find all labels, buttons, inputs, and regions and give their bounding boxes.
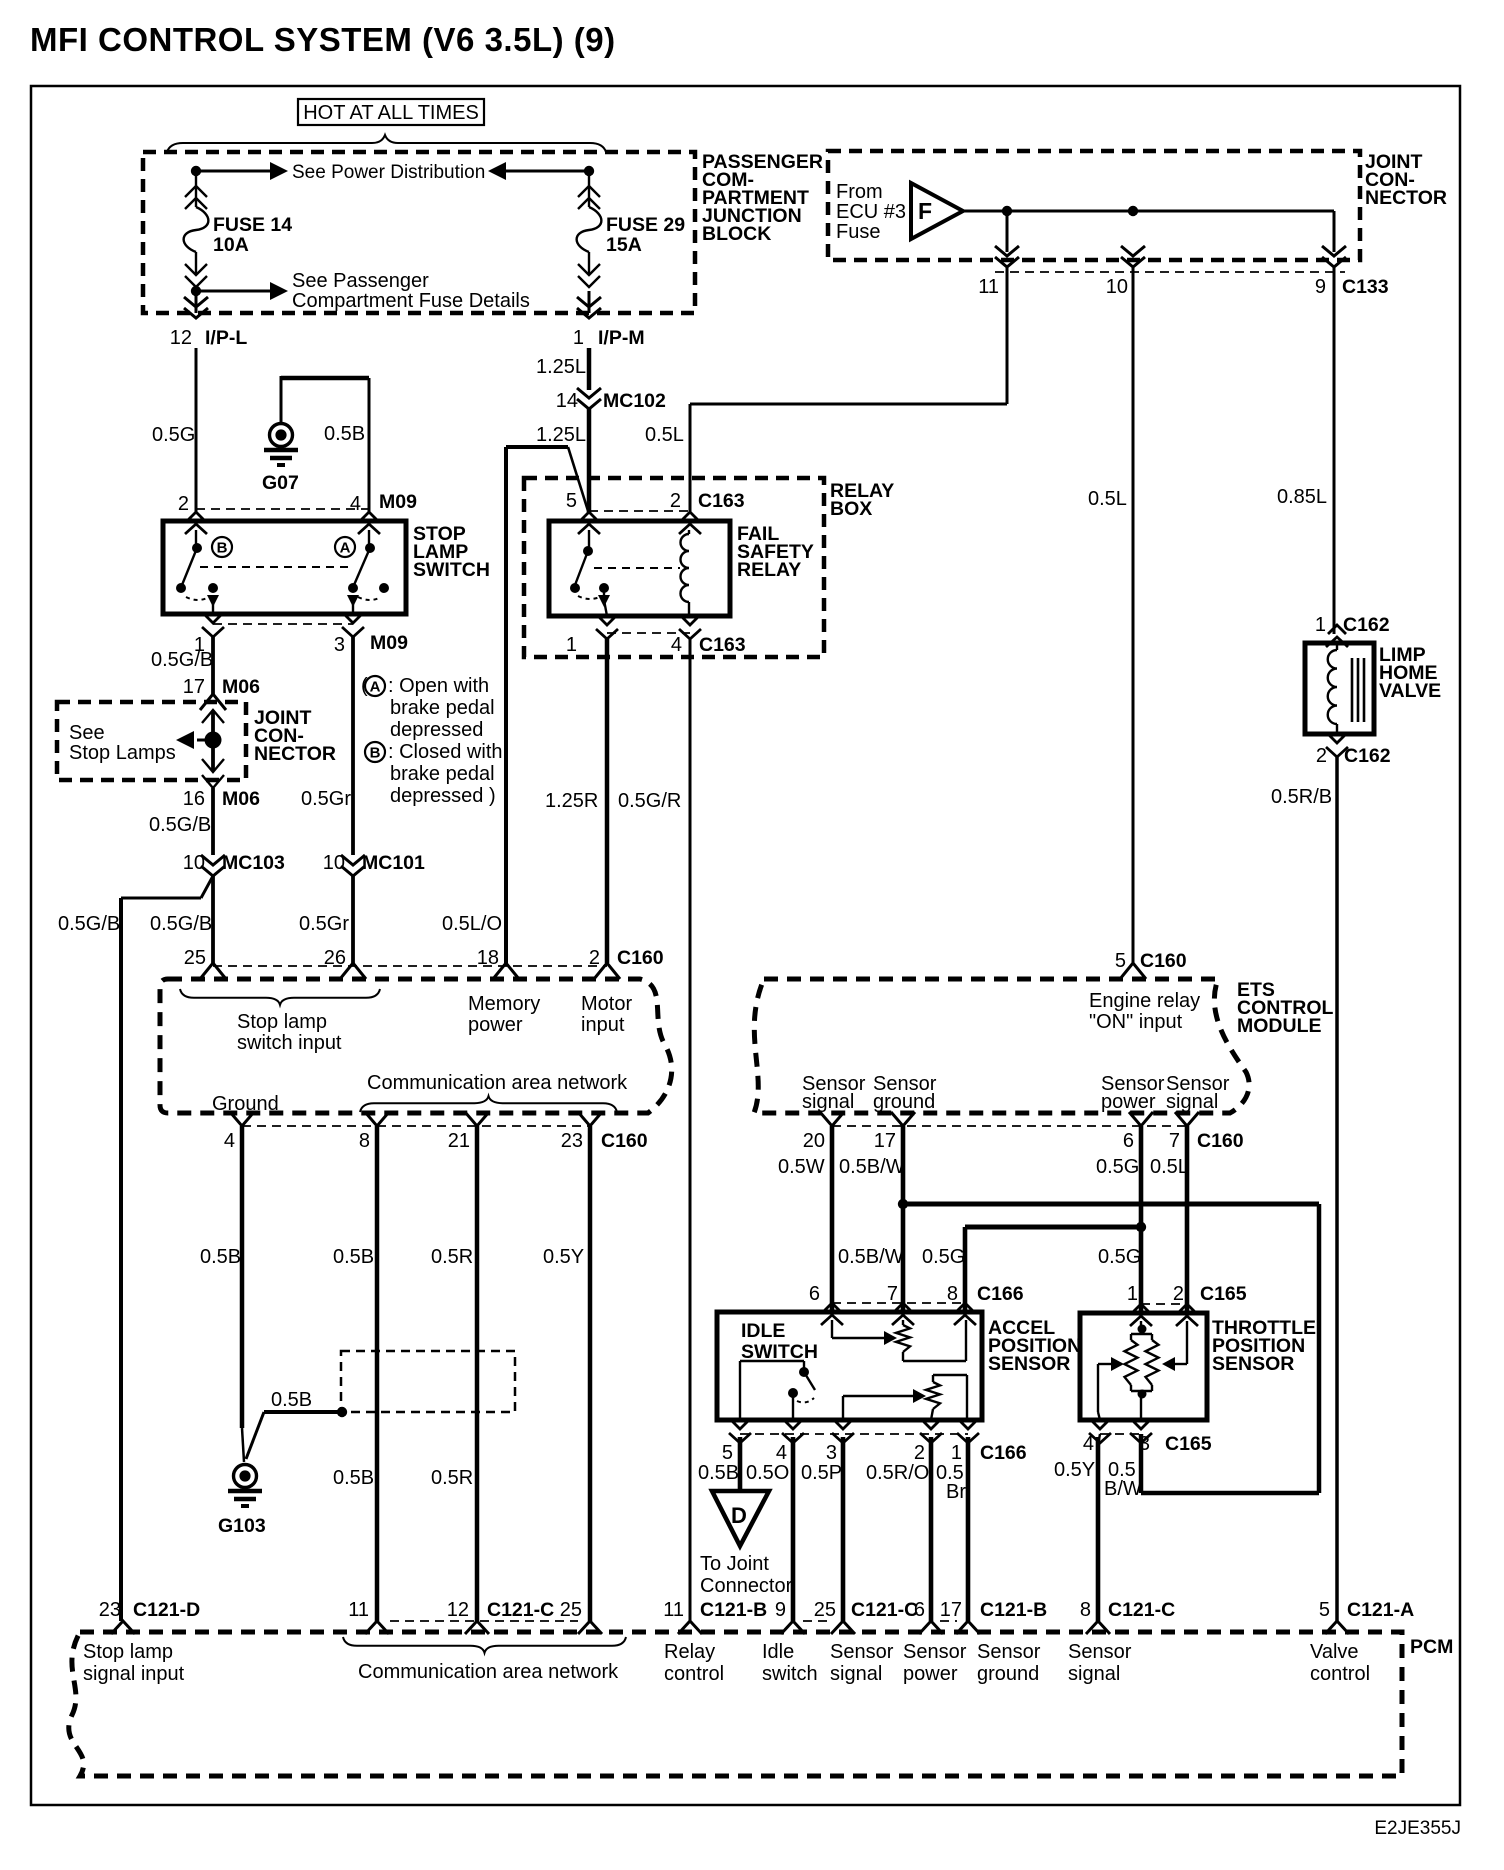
APS pin 7 entry bbox=[892, 1303, 914, 1325]
svg-text:RELAY: RELAY bbox=[737, 559, 801, 581]
svg-text:M09: M09 bbox=[370, 632, 408, 654]
TPS pin 4 exit bbox=[1089, 1420, 1111, 1443]
wire 0.5W ETS pin20 to APS pin6 bbox=[830, 1126, 835, 1312]
connector line M09 top bbox=[196, 508, 369, 510]
svg-text:NECTOR: NECTOR bbox=[254, 743, 336, 765]
node joint connector bbox=[205, 732, 222, 749]
wire 0.5R/B valve to PCM 5 bbox=[1335, 757, 1339, 1621]
svg-text:4: 4 bbox=[350, 493, 361, 515]
wire bus hot feed horizontal bbox=[196, 170, 270, 173]
stop lamp switch pin 3 exit bbox=[342, 614, 364, 637]
svg-text:0.5Gr: 0.5Gr bbox=[299, 913, 349, 935]
svg-text:switch: switch bbox=[762, 1663, 818, 1685]
svg-text:6: 6 bbox=[809, 1283, 820, 1305]
svg-text:brake pedal: brake pedal bbox=[390, 697, 495, 719]
stop lamp switch pin 1 exit bbox=[202, 614, 224, 637]
PCM pin 5 valve control bbox=[1325, 1621, 1349, 1634]
wire 0.5Gr switch pin3 to MC101 bbox=[351, 637, 355, 855]
svg-text:0.5G/B: 0.5G/B bbox=[150, 913, 212, 935]
svg-text:5: 5 bbox=[1115, 950, 1126, 972]
wire 0.5R CAN low to PCM 12 bbox=[475, 1126, 480, 1621]
wire 0.5B/W ETS pin17 to APS pin7 bbox=[901, 1126, 906, 1312]
APS pin 8 entry bbox=[954, 1303, 976, 1325]
svg-text:C165: C165 bbox=[1165, 1433, 1212, 1455]
arrow from right feed bbox=[488, 162, 506, 180]
svg-text:C121-C: C121-C bbox=[1108, 1599, 1175, 1621]
ETS control module right bay dashed outline bbox=[754, 979, 1249, 1113]
svg-text:F: F bbox=[918, 198, 932, 224]
connector line C160 bottom left bbox=[242, 1125, 590, 1127]
PCM pin 17 sensor ground bbox=[956, 1621, 980, 1634]
svg-text:Communication area network: Communication area network bbox=[367, 1072, 628, 1094]
connector line C166 top bbox=[832, 1302, 965, 1304]
switch mechanical link dashed bbox=[200, 566, 350, 568]
svg-text:4: 4 bbox=[1083, 1433, 1094, 1455]
ETS module pin 17 exit bbox=[891, 1112, 915, 1126]
svg-text:0.5L: 0.5L bbox=[1088, 488, 1127, 510]
PCM pin 25 sensor signal bbox=[831, 1621, 855, 1634]
svg-text:power: power bbox=[468, 1014, 523, 1036]
svg-text:A: A bbox=[370, 679, 381, 696]
shield dashed box bbox=[341, 1351, 515, 1412]
wire 0.5B stop lamp switch pin4 to G07 bbox=[281, 376, 369, 381]
svg-text:signal: signal bbox=[802, 1091, 854, 1113]
svg-text:0.5G/B: 0.5G/B bbox=[149, 814, 211, 836]
node junction below fuse 14 bbox=[191, 286, 201, 296]
arrow to See Stop Lamps bbox=[176, 731, 194, 749]
svg-text:Sensor: Sensor bbox=[1068, 1641, 1132, 1663]
svg-text:depressed ): depressed ) bbox=[390, 785, 496, 807]
ETS module pin 5 entry bbox=[1120, 963, 1146, 979]
svg-text:C121-C: C121-C bbox=[851, 1599, 918, 1621]
svg-text:input: input bbox=[581, 1014, 625, 1036]
svg-text:0.5R/O: 0.5R/O bbox=[866, 1462, 929, 1484]
svg-text:C121-A: C121-A bbox=[1347, 1599, 1414, 1621]
APS pin 1 exit bbox=[957, 1420, 979, 1443]
svg-text:M09: M09 bbox=[379, 491, 417, 513]
ETS module pin 4 exit bbox=[230, 1112, 254, 1126]
svg-text:10: 10 bbox=[183, 852, 205, 874]
svg-text:0.5R: 0.5R bbox=[431, 1467, 473, 1489]
node sensor power junction bbox=[1136, 1222, 1146, 1232]
svg-text:5: 5 bbox=[566, 490, 577, 512]
svg-text:C163: C163 bbox=[698, 490, 745, 512]
wire 0.5R/O APS pin2 to PCM 6 bbox=[929, 1437, 934, 1621]
wire 0.5G/R relay pin4 to PCM relay control bbox=[689, 639, 692, 1621]
svg-text:FUSE 14: FUSE 14 bbox=[213, 214, 292, 236]
svg-text:12: 12 bbox=[170, 327, 192, 349]
wire 10 0.5L to ETS pin5 bbox=[1132, 266, 1135, 963]
svg-text:Relay: Relay bbox=[664, 1641, 715, 1663]
svg-text:brake pedal: brake pedal bbox=[390, 763, 495, 785]
relay box dashed outline bbox=[524, 478, 824, 657]
svg-text:See Passenger: See Passenger bbox=[292, 270, 429, 292]
svg-text:6: 6 bbox=[1123, 1130, 1134, 1152]
svg-text:"ON" input: "ON" input bbox=[1089, 1011, 1183, 1033]
svg-text:12: 12 bbox=[447, 1599, 469, 1621]
svg-text:MODULE: MODULE bbox=[1237, 1015, 1322, 1037]
TPS pin 2 entry bbox=[1176, 1304, 1198, 1326]
svg-text:I/P-M: I/P-M bbox=[598, 327, 645, 349]
svg-text:MC103: MC103 bbox=[222, 852, 285, 874]
svg-text:0.5G: 0.5G bbox=[152, 424, 195, 446]
brace stop lamp switch input bbox=[180, 989, 380, 1005]
ground G103 symbol bbox=[228, 1465, 262, 1507]
joint connector dashed box top right bbox=[828, 151, 1360, 260]
svg-text:0.5W: 0.5W bbox=[778, 1156, 825, 1178]
svg-text:C133: C133 bbox=[1342, 276, 1389, 298]
wire to passenger fuse details bbox=[196, 290, 270, 293]
svg-text:8: 8 bbox=[359, 1130, 370, 1152]
accel position sensor / idle switch box bbox=[717, 1312, 982, 1420]
svg-text:3: 3 bbox=[826, 1442, 837, 1464]
connector C133 pin 10 exit bbox=[1121, 246, 1145, 267]
connector exit pin 12 I/P-L bbox=[195, 291, 198, 313]
svg-text:11: 11 bbox=[348, 1599, 369, 1621]
svg-text:Sensor: Sensor bbox=[903, 1641, 967, 1663]
svg-text:0.5B: 0.5B bbox=[333, 1246, 374, 1268]
svg-text:Stop lamp: Stop lamp bbox=[237, 1011, 327, 1033]
svg-text:0.5B: 0.5B bbox=[200, 1246, 241, 1268]
svg-text:signal input: signal input bbox=[83, 1663, 185, 1685]
junction block dashed box bbox=[143, 152, 695, 313]
connector C133 pin 9 exit bbox=[1322, 246, 1346, 267]
svg-text:0.5G/R: 0.5G/R bbox=[618, 790, 681, 812]
svg-text:C121-C: C121-C bbox=[487, 1599, 554, 1621]
connector line C165 top bbox=[1141, 1303, 1187, 1305]
svg-text:0.5L/O: 0.5L/O bbox=[442, 913, 502, 935]
svg-text:4: 4 bbox=[776, 1442, 787, 1464]
svg-text:17: 17 bbox=[940, 1599, 962, 1621]
valve coil bbox=[1328, 650, 1337, 724]
limp home valve box bbox=[1305, 643, 1374, 734]
svg-text:Stop Lamps: Stop Lamps bbox=[69, 742, 176, 764]
svg-text:: Open with: : Open with bbox=[388, 675, 489, 697]
svg-text:Br: Br bbox=[946, 1481, 966, 1503]
svg-text:E2JE355J: E2JE355J bbox=[1374, 1818, 1461, 1839]
svg-text:power: power bbox=[903, 1663, 958, 1685]
svg-text:Sensor: Sensor bbox=[830, 1641, 894, 1663]
svg-text:C166: C166 bbox=[980, 1442, 1027, 1464]
connector line C160 bottom right bbox=[832, 1125, 1187, 1127]
node junction fuse 29 top bbox=[584, 166, 594, 176]
connector C133 pin 11 exit bbox=[1006, 211, 1009, 252]
brace under HOT AT ALL TIMES bbox=[167, 135, 606, 152]
svg-text:C121-B: C121-B bbox=[700, 1599, 767, 1621]
svg-text:ground: ground bbox=[873, 1091, 935, 1113]
ETS module pin 18 entry bbox=[493, 963, 519, 979]
PCM pin 9 idle switch bbox=[781, 1621, 805, 1634]
connector line M09 bottom bbox=[213, 623, 353, 625]
svg-text:Valve: Valve bbox=[1310, 1641, 1359, 1663]
svg-text:0.5G/B: 0.5G/B bbox=[151, 649, 213, 671]
APS potentiometer 1 bbox=[902, 1320, 904, 1325]
svg-text:0.85L: 0.85L bbox=[1277, 486, 1327, 508]
fail safety relay box bbox=[549, 521, 730, 616]
wire 0.5Gr MC101 to ETS pin 26 bbox=[351, 876, 355, 963]
svg-text:11: 11 bbox=[978, 276, 999, 298]
svg-text:B/W: B/W bbox=[1104, 1478, 1142, 1500]
wire 9 0.85L to limp home valve bbox=[1333, 266, 1336, 634]
triangle connector D bbox=[712, 1491, 769, 1546]
svg-text:Communication area network: Communication area network bbox=[358, 1661, 619, 1683]
svg-text:ECU #3: ECU #3 bbox=[836, 201, 906, 223]
svg-text:16: 16 bbox=[183, 788, 205, 810]
svg-text:8: 8 bbox=[1080, 1599, 1091, 1621]
svg-text:SWITCH: SWITCH bbox=[413, 559, 490, 581]
svg-text:1: 1 bbox=[1127, 1283, 1138, 1305]
svg-text:signal: signal bbox=[1068, 1663, 1120, 1685]
wire 0.5G/B MC103 to ETS pin 25 bbox=[211, 876, 215, 963]
svg-text:VALVE: VALVE bbox=[1379, 680, 1441, 702]
PCM pin 23 C121-D bbox=[121, 1620, 123, 1623]
svg-text:signal: signal bbox=[830, 1663, 882, 1685]
svg-text:5: 5 bbox=[1319, 1599, 1330, 1621]
svg-text:Fuse: Fuse bbox=[836, 221, 880, 243]
svg-text:25: 25 bbox=[184, 947, 206, 969]
svg-text:Stop lamp: Stop lamp bbox=[83, 1641, 173, 1663]
ETS control module left bay dashed outline bbox=[160, 979, 672, 1113]
svg-text:9: 9 bbox=[1315, 276, 1326, 298]
svg-text:0.5B: 0.5B bbox=[324, 423, 365, 445]
connector line C163 top bbox=[589, 510, 690, 512]
connector dashes C121 idle bbox=[803, 1620, 832, 1622]
inline connector MC101 bbox=[341, 855, 365, 876]
svg-text:ground: ground bbox=[977, 1663, 1039, 1685]
svg-text:control: control bbox=[1310, 1663, 1370, 1685]
idle switch contact bbox=[739, 1361, 741, 1420]
wire 0.5G I/P-L to stop lamp switch pin 2 bbox=[195, 348, 198, 512]
connector line C165 bottom bbox=[1100, 1433, 1141, 1435]
relay mechanical link dashed bbox=[594, 567, 680, 569]
svg-text:NECTOR: NECTOR bbox=[1365, 187, 1447, 209]
svg-text:3: 3 bbox=[334, 634, 345, 656]
wire 1.25R relay pin1 to ETS motor input bbox=[605, 639, 610, 963]
svg-text:10A: 10A bbox=[213, 234, 249, 256]
ETS module pin 20 exit bbox=[820, 1112, 844, 1126]
svg-text:0.5G: 0.5G bbox=[1096, 1156, 1139, 1178]
wire 0.5G/B switch pin1 to joint connector bbox=[211, 637, 215, 694]
svg-text:6: 6 bbox=[914, 1599, 925, 1621]
svg-text:B: B bbox=[217, 540, 228, 557]
node wire10 branch bbox=[1128, 206, 1138, 216]
relay coil bbox=[681, 534, 690, 602]
svg-text:0.5R: 0.5R bbox=[431, 1246, 473, 1268]
svg-text:D: D bbox=[731, 1503, 747, 1528]
svg-text:BLOCK: BLOCK bbox=[702, 223, 771, 245]
wire 0.5G ETS pin6 to TPS pin1 bbox=[1139, 1126, 1144, 1313]
PCM pin 8 sensor signal bbox=[1086, 1621, 1110, 1634]
stop lamp switch pin 2 entry bbox=[185, 512, 207, 534]
svg-text:1: 1 bbox=[951, 1442, 962, 1464]
svg-text:Compartment Fuse Details: Compartment Fuse Details bbox=[292, 290, 530, 312]
svg-text:25: 25 bbox=[814, 1599, 836, 1621]
inline connector MC103 bbox=[201, 855, 225, 876]
TPS wiper to pin 2 bbox=[1186, 1321, 1188, 1364]
svg-text:2: 2 bbox=[1173, 1283, 1184, 1305]
svg-text:0.5B/W: 0.5B/W bbox=[838, 1246, 904, 1268]
node shield junction bbox=[337, 1407, 347, 1417]
svg-text:0.5O: 0.5O bbox=[746, 1462, 789, 1484]
svg-text:MFI CONTROL SYSTEM (V6 3.5L) (: MFI CONTROL SYSTEM (V6 3.5L) (9) bbox=[30, 21, 616, 58]
PCM pin 11 relay control bbox=[678, 1621, 702, 1634]
svg-text:2: 2 bbox=[914, 1442, 925, 1464]
wire 1.25L I/P-M to MC102 bbox=[587, 348, 592, 390]
svg-text:G07: G07 bbox=[262, 472, 299, 494]
svg-text:0.5Y: 0.5Y bbox=[543, 1246, 584, 1268]
TPS resistor pair bbox=[1140, 1321, 1142, 1329]
svg-text:15A: 15A bbox=[606, 234, 642, 256]
throttle position sensor box bbox=[1080, 1313, 1207, 1420]
ETS module pin 25 entry bbox=[200, 963, 226, 979]
APS pot2 wiper from pin 3 bbox=[842, 1396, 844, 1420]
svg-text:C162: C162 bbox=[1344, 745, 1391, 767]
stop lamps joint connector dashed box bbox=[57, 702, 246, 780]
svg-text:C121-B: C121-B bbox=[980, 1599, 1047, 1621]
APS pin 2 exit bbox=[920, 1420, 942, 1443]
APS pin 4 exit bbox=[782, 1420, 804, 1443]
svg-text:HOT AT ALL TIMES: HOT AT ALL TIMES bbox=[303, 102, 479, 124]
ETS module pin 23 exit bbox=[578, 1112, 602, 1126]
svg-text:To Joint: To Joint bbox=[700, 1553, 769, 1575]
svg-text:2: 2 bbox=[670, 490, 681, 512]
svg-text:B: B bbox=[370, 745, 381, 762]
svg-text:M06: M06 bbox=[222, 676, 260, 698]
fuse F14 symbol bbox=[184, 171, 209, 287]
PCM pin 11 CAN bbox=[365, 1621, 389, 1634]
joint connector M06 entry pin 17 bbox=[200, 694, 226, 710]
wire 0.5O APS pin4 to PCM 9 bbox=[791, 1437, 796, 1621]
svg-text:10: 10 bbox=[1106, 276, 1128, 298]
svg-text:switch input: switch input bbox=[237, 1032, 342, 1054]
svg-text:power: power bbox=[1101, 1091, 1156, 1113]
svg-text:MC101: MC101 bbox=[362, 852, 425, 874]
connector line C166 bottom bbox=[740, 1433, 968, 1435]
svg-text:1.25L: 1.25L bbox=[536, 356, 586, 378]
svg-text:7: 7 bbox=[887, 1283, 898, 1305]
relay switch contact bbox=[588, 530, 590, 548]
svg-text:See Power Distribution: See Power Distribution bbox=[292, 162, 485, 183]
TPS wiper to pin 4 bbox=[1097, 1364, 1099, 1412]
svg-text:20: 20 bbox=[803, 1130, 825, 1152]
svg-text:0.5G: 0.5G bbox=[922, 1246, 965, 1268]
wire 0.5Y ETS pin23 to PCM 25 bbox=[588, 1126, 593, 1621]
wire 0.5B ETS pin4 to G103 bbox=[240, 1126, 245, 1428]
wire 0.5L ETS pin7 to TPS pin2 bbox=[1185, 1126, 1190, 1313]
APS pin 5 exit bbox=[729, 1420, 751, 1443]
svg-text:Motor: Motor bbox=[581, 993, 632, 1015]
PCM pin 25 CAN bbox=[578, 1621, 602, 1634]
svg-text:5: 5 bbox=[722, 1442, 733, 1464]
wire 1.25L MC102 to fail safety relay pin 5 bbox=[587, 409, 592, 514]
brace communication area network bottom bbox=[343, 1637, 626, 1653]
valve bars bbox=[1351, 658, 1354, 722]
svg-text:25: 25 bbox=[560, 1599, 582, 1621]
relay pin 1 exit bbox=[596, 616, 618, 639]
ETS module pin 21 exit bbox=[465, 1112, 489, 1126]
ETS module pin 26 entry bbox=[340, 963, 366, 979]
switch A contact bbox=[368, 530, 370, 545]
svg-text:C166: C166 bbox=[977, 1283, 1024, 1305]
svg-text:Engine relay: Engine relay bbox=[1089, 990, 1200, 1012]
svg-text:M06: M06 bbox=[222, 788, 260, 810]
svg-text:2: 2 bbox=[1316, 745, 1327, 767]
svg-text:SENSOR: SENSOR bbox=[988, 1353, 1070, 1375]
svg-text:4: 4 bbox=[671, 634, 682, 656]
svg-text:Sensor: Sensor bbox=[977, 1641, 1041, 1663]
node sensor ground junction bbox=[898, 1199, 908, 1209]
svg-text:0.5L: 0.5L bbox=[1150, 1156, 1189, 1178]
svg-text:PCM: PCM bbox=[1410, 1636, 1453, 1658]
svg-text:IDLE: IDLE bbox=[741, 1320, 785, 1342]
wire 0.5B APS pin5 to joint connector D bbox=[738, 1437, 743, 1491]
triangle connector F bbox=[911, 183, 963, 239]
svg-text:8: 8 bbox=[947, 1283, 958, 1305]
relay pin 4 exit bbox=[679, 616, 701, 639]
svg-text:1.25L: 1.25L bbox=[536, 424, 586, 446]
APS pin 3 exit bbox=[832, 1420, 854, 1443]
APS potentiometer 2 bbox=[932, 1375, 934, 1382]
svg-text:21: 21 bbox=[448, 1130, 470, 1152]
svg-text:0.5P: 0.5P bbox=[801, 1462, 842, 1484]
ground G07 symbol bbox=[264, 424, 298, 466]
brace communication area network top bbox=[360, 1096, 617, 1112]
svg-text:3: 3 bbox=[1139, 1433, 1150, 1455]
svg-text:Idle: Idle bbox=[762, 1641, 794, 1663]
svg-text:SENSOR: SENSOR bbox=[1212, 1353, 1294, 1375]
svg-text:C160: C160 bbox=[601, 1130, 648, 1152]
node junction fuse 14 top bbox=[191, 166, 201, 176]
svg-text:SWITCH: SWITCH bbox=[741, 1341, 818, 1363]
svg-text:1: 1 bbox=[573, 327, 584, 349]
label box HOT AT ALL TIMES bbox=[298, 99, 484, 125]
svg-text:G103: G103 bbox=[218, 1515, 266, 1537]
stop lamp switch box bbox=[163, 521, 406, 614]
svg-text:0.5R/B: 0.5R/B bbox=[1271, 786, 1332, 808]
svg-text:7: 7 bbox=[1169, 1130, 1180, 1152]
svg-text:17: 17 bbox=[183, 676, 205, 698]
wire 11 to relay coil 0.5L bbox=[1006, 266, 1009, 404]
svg-text:C160: C160 bbox=[617, 947, 664, 969]
TPS pin 3 exit bbox=[1130, 1420, 1152, 1443]
wire 0.5B CAN high to PCM 11 bbox=[375, 1126, 380, 1621]
PCM dashed outline bbox=[69, 1632, 1402, 1776]
svg-text:1: 1 bbox=[566, 634, 577, 656]
svg-text:C165: C165 bbox=[1200, 1283, 1247, 1305]
ETS module pin 8 exit bbox=[365, 1112, 389, 1126]
svg-text:Memory: Memory bbox=[468, 993, 540, 1015]
memory power wire 0.5L/O from relay pin5 bbox=[504, 447, 508, 963]
svg-text:signal: signal bbox=[1166, 1091, 1218, 1113]
wire thin to ground G103 bbox=[242, 1428, 244, 1462]
svg-text:23: 23 bbox=[99, 1599, 121, 1621]
svg-text:1: 1 bbox=[1315, 614, 1326, 636]
svg-text:control: control bbox=[664, 1663, 724, 1685]
svg-text:Ground: Ground bbox=[212, 1093, 279, 1115]
svg-text:I/P-L: I/P-L bbox=[205, 327, 247, 349]
ETS module pin 2 entry bbox=[594, 963, 620, 979]
fuse F29 symbol bbox=[577, 171, 602, 287]
svg-text:C160: C160 bbox=[1197, 1130, 1244, 1152]
svg-text:C162: C162 bbox=[1343, 614, 1390, 636]
svg-text:14: 14 bbox=[556, 390, 578, 412]
svg-text:BOX: BOX bbox=[830, 498, 872, 520]
limp home valve pin 2 exit bbox=[1326, 734, 1348, 757]
connector dashes C121-C CAN bbox=[390, 1620, 578, 1622]
svg-text:17: 17 bbox=[874, 1130, 896, 1152]
svg-text:: Closed with: : Closed with bbox=[388, 741, 503, 763]
APS pin 6 entry bbox=[821, 1303, 843, 1325]
